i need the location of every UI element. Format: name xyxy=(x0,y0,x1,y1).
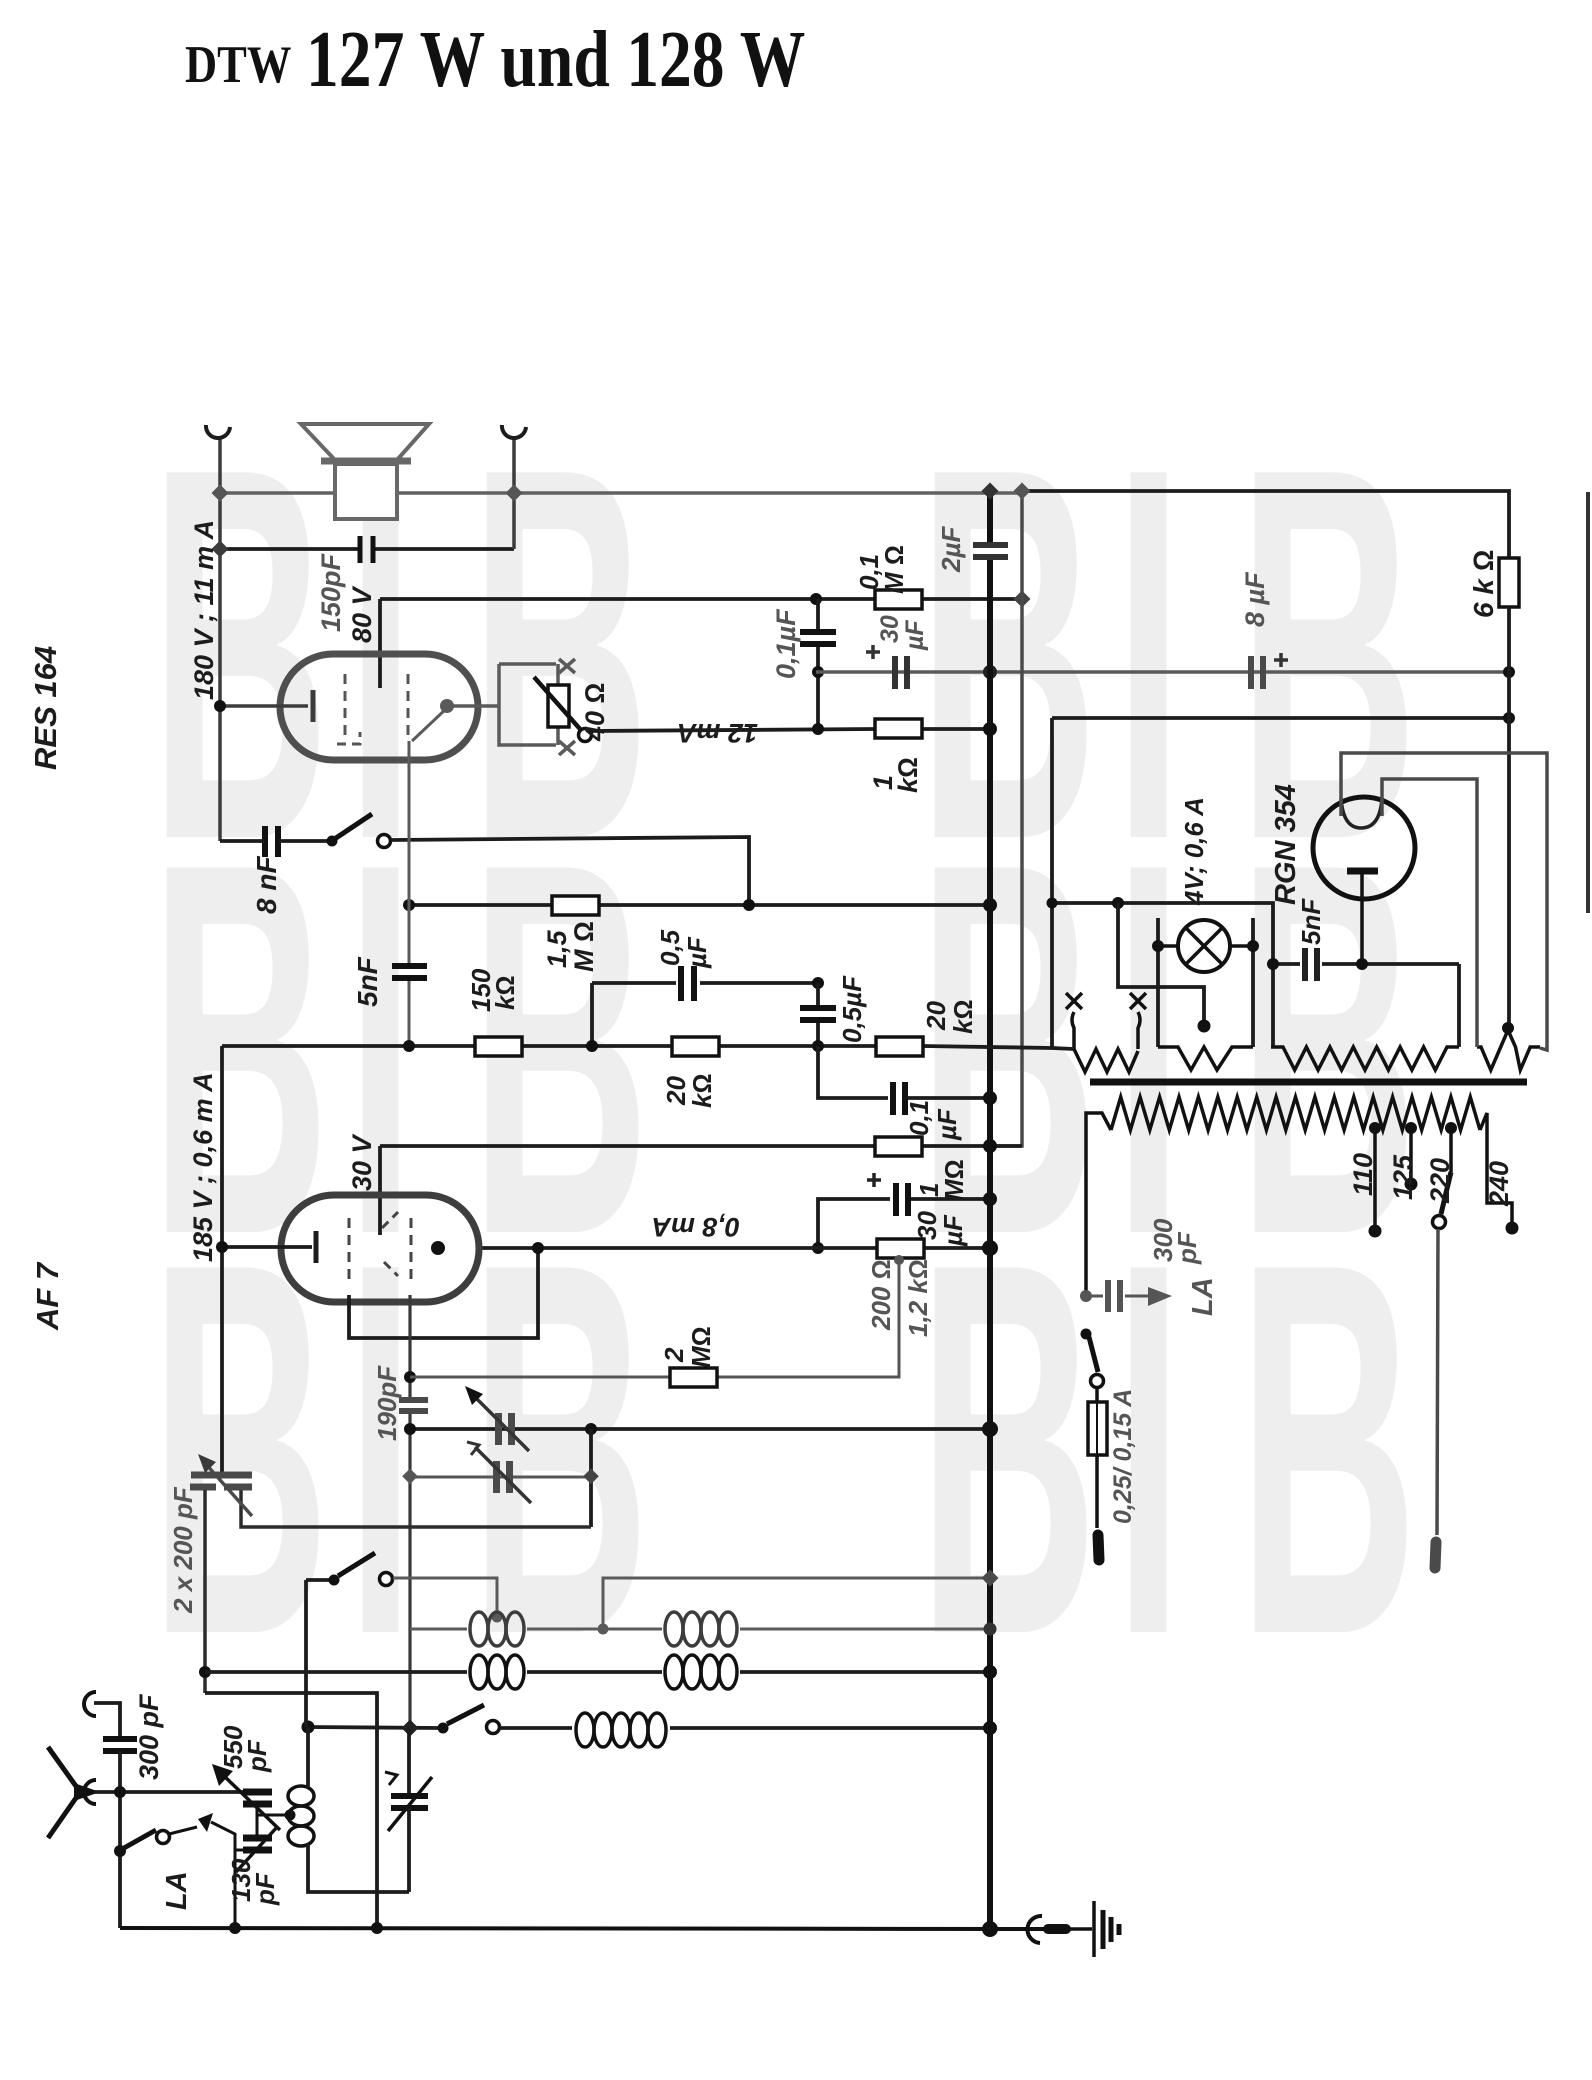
coil L2 xyxy=(665,1612,737,1646)
capacitor 300pF antenna plates xyxy=(103,1736,137,1742)
svg-text:µF: µF xyxy=(938,1214,968,1247)
wire: lamp left lead xyxy=(1156,918,1160,1047)
tap 220 with selector xyxy=(1445,1122,1457,1134)
node: row1477 x410 diamond xyxy=(402,1469,418,1485)
node: x205 row1672 xyxy=(199,1666,211,1678)
svg-text:µF: µF xyxy=(901,620,929,651)
tap 125 xyxy=(1405,1122,1417,1134)
coil L1 xyxy=(470,1612,524,1646)
node: row905 bus xyxy=(983,898,997,912)
svg-text:2: 2 xyxy=(659,1347,689,1363)
potentiometer 40ohm wiper xyxy=(534,677,580,729)
resistor 0,1MOhm xyxy=(875,590,922,609)
wire: 130pF bottom to ground vertical xyxy=(235,1849,243,1852)
wire: 8nF row y=841 xyxy=(220,839,264,843)
node: x120 y1851 xyxy=(114,1845,126,1857)
ground plug pin xyxy=(1048,1924,1066,1934)
node: row1429 x410 xyxy=(404,1423,416,1435)
svg-text:125: 125 xyxy=(1388,1154,1418,1200)
svg-text:RGN 354: RGN 354 xyxy=(1270,784,1302,905)
wire: row y=599 (screen feed) xyxy=(380,597,875,601)
svg-text:0,5: 0,5 xyxy=(655,929,685,966)
node: row1046 x409 xyxy=(403,1040,415,1052)
wire: x=818 with 0,5uF second xyxy=(816,983,820,1008)
svg-text:185 V ; 0,6 m A: 185 V ; 0,6 m A xyxy=(188,1072,218,1262)
svg-text:I: I xyxy=(346,1152,415,1745)
capacitor 0,1uF AF7 plates xyxy=(890,1082,896,1115)
node: row1046 x592 xyxy=(586,1040,598,1052)
node: ground bus xyxy=(982,1921,998,1937)
tube RES164 grid lead xyxy=(219,704,308,708)
trimmer 2x200pF plates xyxy=(191,1472,252,1479)
wire: 0,1uF AF7 branch y=1098 xyxy=(818,1046,888,1098)
svg-text:µF: µF xyxy=(682,936,712,969)
wire: gray band-switch row left y=1578 xyxy=(306,1578,334,1582)
node: grid junction on x=220 xyxy=(214,700,226,712)
node: 6k bottom row672 xyxy=(1503,666,1515,678)
wire: switch to 1,5M corner xyxy=(391,837,749,905)
capacitor 30uF AF7 plates xyxy=(893,1183,899,1216)
primary winding xyxy=(1111,1097,1480,1130)
svg-text:M Ω: M Ω xyxy=(879,545,909,594)
resistor 200/1,2k xyxy=(877,1239,924,1258)
node: y903 x1118 xyxy=(1112,897,1124,909)
node: x818 on row672 xyxy=(812,666,824,678)
resistor 20kOhm first xyxy=(672,1037,719,1056)
trimmer 550pF xyxy=(243,1789,272,1796)
node: x1022 top diamond xyxy=(1014,483,1031,500)
node: row1199 bus xyxy=(983,1192,997,1206)
svg-text:30 V: 30 V xyxy=(347,1133,377,1191)
potentiometer 40ohm body xyxy=(548,685,569,727)
switch LA antenna xyxy=(124,1830,156,1848)
wire: 12mA row y=729 xyxy=(591,729,875,731)
terminal hook right xyxy=(502,425,526,438)
wire: x=592 link xyxy=(590,983,594,1046)
node: coil row1629 mid xyxy=(598,1624,609,1635)
capacitor 30uF plates xyxy=(892,656,898,689)
svg-text:127 W und 128 W: 127 W und 128 W xyxy=(306,15,805,104)
resistor 150kOhm xyxy=(475,1037,522,1056)
svg-text:LA: LA xyxy=(161,1871,193,1910)
wire: AF7 cathode frame xyxy=(349,1248,538,1338)
svg-text:pF: pF xyxy=(1172,1231,1202,1265)
tube RGN354 envelope xyxy=(1313,797,1415,899)
svg-text:0,5µF: 0,5µF xyxy=(837,975,867,1043)
svg-text:DTW: DTW xyxy=(185,34,291,94)
antenna hook top xyxy=(84,1692,96,1716)
resistor 1,5MOhm xyxy=(552,896,599,915)
svg-text:pF: pF xyxy=(242,1739,272,1773)
tube RES164 internal grid dashes xyxy=(344,674,347,741)
node: bus-right speaker junction xyxy=(506,485,523,502)
wire: AF7 grid cap drop x=410 xyxy=(408,1295,411,1399)
svg-text:pF: pF xyxy=(250,1872,280,1906)
coil L5 xyxy=(576,1713,666,1747)
wire: top bus y=493 (speaker line) xyxy=(220,491,1022,495)
tube RES164 plate dot and lead xyxy=(440,699,454,713)
page edge line xyxy=(1586,492,1590,913)
svg-text:1,5: 1,5 xyxy=(542,929,572,968)
wire: mains lead from selector xyxy=(1437,1229,1438,1535)
node: 200ohm tap xyxy=(894,1255,904,1265)
wire: RES164 control grid drop x=409 xyxy=(408,741,411,966)
svg-text:220: 220 xyxy=(1425,1158,1455,1204)
node: ground x235 xyxy=(229,1922,241,1934)
svg-text:80 V: 80 V xyxy=(347,585,377,643)
transformer core xyxy=(1090,1079,1527,1086)
wire: winding1 leads xyxy=(1072,1012,1140,1049)
node: bus top diamond xyxy=(982,483,999,500)
tube AF7 plate dot xyxy=(431,1241,445,1255)
capacitor 8uF plates xyxy=(1248,656,1254,689)
wire: AF7 plate row y=1248 xyxy=(478,1246,877,1250)
node: row1429 x591 xyxy=(585,1423,597,1435)
wire: AVC row y=1046 xyxy=(222,1044,475,1048)
capacitor 190pF plates xyxy=(399,1397,428,1403)
wire: row y=1527 xyxy=(241,1490,591,1527)
wire: 6k to winding4 tap x=1509 xyxy=(1507,607,1511,1026)
node: row1046 x818 xyxy=(812,1040,824,1052)
capacitor 5nF plates xyxy=(392,963,427,969)
resistor 2MOhm xyxy=(670,1368,717,1387)
wire: primary left lead xyxy=(1086,1113,1111,1296)
tap 110 xyxy=(1369,1122,1381,1134)
wire: lamp right lead xyxy=(1251,918,1255,1047)
switch oscillator xyxy=(329,1575,340,1586)
svg-text:0,25/ 0,15 A: 0,25/ 0,15 A xyxy=(1109,1389,1137,1524)
antenna symbol xyxy=(48,1747,78,1838)
resistor 1kOhm xyxy=(875,719,922,738)
svg-text:AF 7: AF 7 xyxy=(30,1261,65,1331)
tube RES164 envelope xyxy=(280,654,478,760)
node: y549 left junction xyxy=(212,541,229,558)
node: x308 y1727 xyxy=(302,1721,315,1734)
svg-text:300 pF: 300 pF xyxy=(134,1693,164,1780)
wire: 30V drop x=380 xyxy=(378,1146,382,1235)
winding 1 xyxy=(1074,1049,1138,1072)
wire: primary right lead 240 xyxy=(1480,1113,1512,1228)
svg-text:0,1µF: 0,1µF xyxy=(771,608,801,679)
wire: black coil row y=1672 xyxy=(205,1670,467,1674)
tube AF7 internal dashes xyxy=(348,1218,351,1283)
svg-text:110: 110 xyxy=(1348,1153,1378,1196)
wire: left terminal drop x=220 xyxy=(218,437,222,841)
svg-text:RES 164: RES 164 xyxy=(28,646,63,770)
wire: x=591 drop xyxy=(589,1429,593,1527)
svg-text:200 Ω: 200 Ω xyxy=(866,1259,896,1331)
wire: gray row y=1578 right segment xyxy=(603,1578,990,1629)
wire: link y=1693 xyxy=(205,1693,377,1928)
svg-text:kΩ: kΩ xyxy=(893,757,923,793)
node: RGN cathode stem base xyxy=(1356,958,1368,970)
node: 240 end xyxy=(1506,1222,1519,1235)
RGN354 top notch xyxy=(1341,798,1382,828)
wire: LA mains branch y=1296 xyxy=(1086,1295,1103,1298)
capacitor 8nF plates xyxy=(262,826,268,857)
winding 3 xyxy=(1271,1047,1459,1070)
wire: winding3 right lead xyxy=(1457,964,1461,1047)
winding 4 xyxy=(1477,1030,1540,1070)
wire: L5 to bus xyxy=(670,1726,990,1730)
wire: lamp branch x=1117 xyxy=(1118,903,1204,1026)
wire: 0,5uF branch y=983 xyxy=(592,981,676,985)
wire: ground rail y=1928 xyxy=(120,1928,1058,1929)
wire: heater link x=1052 up xyxy=(1050,718,1054,1048)
label +30uF xyxy=(866,645,880,659)
wire: right terminal drop x=514 xyxy=(512,437,516,549)
wire: to coil L5 xyxy=(500,1726,572,1730)
svg-text:MΩ: MΩ xyxy=(686,1326,716,1368)
svg-text:40 Ω: 40 Ω xyxy=(580,683,610,742)
wire: antenna top lead xyxy=(94,1703,120,1737)
svg-text:150pF: 150pF xyxy=(316,552,346,632)
node: winding4 tap xyxy=(1502,1022,1514,1034)
wire: antenna coil bottom loop xyxy=(308,1844,409,1892)
node: x1273 y964 xyxy=(1267,958,1279,970)
speaker body xyxy=(335,464,397,519)
wire: 30V screen row y=1146 xyxy=(380,1144,875,1148)
ground symbol xyxy=(1092,1901,1096,1957)
capacitor 300pF mains plates xyxy=(1105,1280,1111,1312)
wire: LA to trimmer base xyxy=(169,1827,197,1834)
watermark BIB row3 xyxy=(150,1152,1418,1745)
wire: AVC 2M row y=1377 xyxy=(410,1376,670,1379)
wire: pin to earth xyxy=(1066,1927,1092,1931)
wire: antenna bottom lead y=1792 xyxy=(94,1790,243,1794)
antenna hook bottom xyxy=(84,1780,96,1804)
node: 0,1uF top junction xyxy=(810,593,822,605)
svg-text:20: 20 xyxy=(921,1001,951,1031)
node: y718 right xyxy=(1503,712,1515,724)
wire: gray coil row y=1629 xyxy=(410,1628,467,1631)
svg-text:M Ω: M Ω xyxy=(569,921,599,972)
node: row1477 x591 diamond xyxy=(583,1469,599,1485)
svg-text:kΩ: kΩ xyxy=(948,1000,978,1034)
node: row1248 bus xyxy=(982,1240,998,1256)
coil L3 xyxy=(470,1655,524,1689)
capacitor 0,5uF second plates xyxy=(800,1005,836,1011)
wire: tuning row y=1429 xyxy=(410,1427,990,1431)
svg-text:5nF: 5nF xyxy=(352,956,383,1007)
node: row1146 bus xyxy=(983,1139,997,1153)
variable capacitor B xyxy=(493,1461,500,1493)
svg-text:8 µF: 8 µF xyxy=(1240,571,1270,627)
node: bus y1578 diamond xyxy=(982,1570,999,1587)
node: AF7 grid junction xyxy=(216,1241,228,1253)
svg-text:240: 240 xyxy=(1484,1161,1514,1207)
winding 2 xyxy=(1158,1047,1253,1070)
capacitor 0,5uF plates xyxy=(678,966,684,1001)
x mark upper xyxy=(559,659,575,673)
wire: antenna x=120 vertical xyxy=(118,1751,122,1928)
wire: screen 80V drop x=380 xyxy=(378,599,382,688)
svg-text:LA: LA xyxy=(1187,1277,1219,1316)
resistor 20kOhm second xyxy=(876,1037,923,1056)
svg-text:12 mA: 12 mA xyxy=(677,718,758,748)
wire: oscillator coil branch x=306 xyxy=(304,1580,308,1727)
wire: 5nF row y=964 xyxy=(1273,962,1300,966)
wire: x=205 drop from trimmer xyxy=(203,1490,207,1693)
svg-text:MΩ: MΩ xyxy=(939,1159,969,1201)
coil L4 xyxy=(665,1655,737,1689)
fuse 0,25/0,15A xyxy=(1095,1387,1099,1402)
capacitor 2uF plates on bus xyxy=(973,542,1008,548)
svg-text:B: B xyxy=(1238,1152,1418,1745)
ground hook xyxy=(1027,1916,1042,1943)
node: plate-cathode frame top xyxy=(532,1242,544,1254)
node: row1248 x818 xyxy=(812,1242,824,1254)
tube AF7 grid lead xyxy=(222,1245,312,1249)
node: y903 x1052 xyxy=(1047,898,1058,909)
node: row599 right diamond xyxy=(1014,591,1031,608)
svg-text:180 V ; 11 m A: 180 V ; 11 m A xyxy=(189,520,219,700)
wire: trimmer mid node xyxy=(257,1804,290,1815)
arrow LA mains xyxy=(1148,1287,1172,1306)
wire: 0,1uF vertical x=818 xyxy=(816,599,820,630)
svg-text:B: B xyxy=(150,1152,330,1745)
watermark BIB row1 xyxy=(150,357,1418,950)
antenna coil xyxy=(288,1786,314,1846)
svg-text:kΩ: kΩ xyxy=(687,1074,717,1108)
node: bus-left junction xyxy=(212,485,229,502)
main HT bus x=990 xyxy=(987,491,993,542)
svg-text:2 x 200 pF: 2 x 200 pF xyxy=(168,1486,198,1614)
wire: RGN anode loop left xyxy=(1341,753,1547,1050)
svg-text:0,1: 0,1 xyxy=(904,1100,934,1136)
capacitor 0,1uF plates xyxy=(800,629,836,635)
wire: row y=672 electrolytic rail xyxy=(816,670,1509,674)
svg-text:2µF: 2µF xyxy=(936,526,966,573)
x mark winding1 right xyxy=(1130,993,1146,1009)
variable capacitor antenna xyxy=(407,1729,411,1794)
switch wave trap xyxy=(438,1723,449,1734)
svg-text:190pF: 190pF xyxy=(372,1365,402,1441)
wire: heater feed y=903 xyxy=(1052,903,1273,1047)
node: bus y1728 xyxy=(983,1721,997,1735)
node: x818 on row729 xyxy=(812,723,824,735)
label +30uF AF7 xyxy=(867,1173,881,1187)
node: winding2 tap xyxy=(1198,1020,1211,1033)
switch mains xyxy=(1081,1329,1092,1340)
capacitor 150pF plates xyxy=(358,536,363,563)
node: coil1 tap xyxy=(492,1612,503,1623)
wire: padder row y=1477 xyxy=(410,1476,591,1479)
node: ground x377 xyxy=(371,1922,383,1934)
wire: row1049 link to winding1 xyxy=(1052,1048,1074,1049)
node: y1792 x120 xyxy=(114,1786,126,1798)
svg-text:8 nF: 8 nF xyxy=(251,856,282,914)
wire: wave trap row y=1728 xyxy=(308,1727,440,1728)
node: 1k right on bus xyxy=(983,722,997,736)
lamp 4V 0,6A xyxy=(1158,944,1180,948)
wire: top bus right black portion to 6k corner xyxy=(1022,491,1509,558)
x mark winding1 left xyxy=(1066,993,1082,1009)
wire: antenna coil top xyxy=(306,1727,310,1788)
tube AF7 envelope xyxy=(281,1195,479,1302)
node: bus row672 xyxy=(983,665,997,679)
plug pin left xyxy=(1098,1535,1099,1560)
wire: gray jumper to coil1 tap xyxy=(393,1578,497,1615)
node: bus y1672 xyxy=(983,1665,997,1679)
wire: AF7 left vertical x=222 xyxy=(220,1046,224,1474)
node: row905 x749 xyxy=(743,899,755,911)
resistor 6kOhm xyxy=(1499,558,1519,607)
wire: gray vertical x=1022 xyxy=(990,491,1022,1146)
svg-text:4V; 0,6 A: 4V; 0,6 A xyxy=(1179,797,1209,906)
watermark BIB row2 xyxy=(150,752,1418,1345)
wire: 30uF AF7 row y=1199 xyxy=(818,1199,890,1248)
svg-text:0,8 mA: 0,8 mA xyxy=(651,1212,740,1242)
terminal hook left xyxy=(206,425,230,438)
node: x818 y983 xyxy=(812,977,824,989)
x mark lower xyxy=(559,741,575,755)
wire: grid leak row y=905 xyxy=(409,903,552,907)
wire: speaker secondary line y=549 with hook drops xyxy=(220,547,360,551)
node: bus y1629 xyxy=(984,1623,997,1636)
wire: heater top y=718 xyxy=(1052,716,1509,720)
switch anode circuit xyxy=(327,836,338,847)
speaker horn xyxy=(301,424,429,460)
trimmer 130pF xyxy=(256,1815,259,1836)
node: row1429 bus xyxy=(982,1421,998,1437)
RGN354 filament bar and stem xyxy=(1347,868,1378,875)
node: LA branch xyxy=(1080,1290,1092,1302)
svg-text:1,2 kΩ: 1,2 kΩ xyxy=(903,1259,933,1337)
node: x410 y1377 xyxy=(404,1371,416,1383)
capacitor 5nF RGN plates xyxy=(1302,948,1308,981)
node: row1098 bus xyxy=(983,1091,997,1105)
svg-text:kΩ: kΩ xyxy=(490,976,520,1010)
node: row905 left xyxy=(403,899,415,911)
resistor 1MOhm xyxy=(875,1137,922,1156)
node: x410 y1728 diamond xyxy=(402,1720,419,1737)
svg-text:30: 30 xyxy=(876,615,904,643)
plug pin right xyxy=(1435,1542,1436,1568)
svg-text:6 k Ω: 6 k Ω xyxy=(1468,550,1499,618)
wire: RGN anode loop right xyxy=(1382,779,1477,1047)
svg-text:µF: µF xyxy=(932,1108,962,1141)
wire: 40ohm network frame xyxy=(499,662,556,666)
speaker bar xyxy=(321,458,411,465)
variable capacitor A xyxy=(495,1413,502,1445)
tube RES164 cathode mark xyxy=(337,732,360,744)
